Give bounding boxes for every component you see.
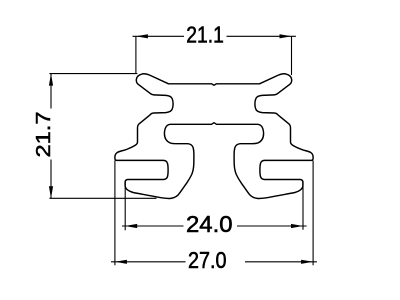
arrowhead dim 21.7 top (49, 74, 53, 86)
arrowhead dim 21.1 left (136, 34, 148, 38)
dimension line 24.0 (with text gap) (122, 225, 307, 227)
arrowhead dim 27.0 left (115, 260, 127, 264)
extension lines for dim 21.1 (136, 36, 292, 75)
extension lines for dim 24.0 (125, 182, 303, 231)
arrowhead dim 21.7 bottom (49, 186, 53, 198)
arrowhead dim 21.1 right (280, 34, 292, 38)
dimension line 21.1 (top, with text gap) (133, 35, 296, 37)
arrowhead dim 24.0 right (291, 224, 303, 228)
extension lines for dim 21.7 (49, 74, 156, 199)
arrowhead dim 27.0 right (301, 260, 313, 264)
svg-text:24.0: 24.0 (186, 211, 233, 237)
svg-text:21.1: 21.1 (186, 22, 224, 48)
svg-text:27.0: 27.0 (188, 247, 227, 273)
dimension line 27.0 (with text gap) (111, 261, 317, 263)
extrusion profile cross-section outline (115, 74, 313, 199)
dimension line 21.7 (left vertical, with text gap) (50, 74, 52, 199)
svg-text:21.7: 21.7 (33, 112, 55, 158)
arrowhead dim 24.0 left (125, 224, 137, 228)
extension lines for dim 27.0 (115, 161, 313, 266)
